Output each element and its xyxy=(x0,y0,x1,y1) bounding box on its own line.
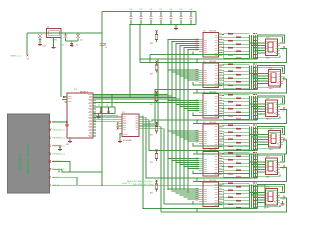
row 5 rail C xyxy=(193,168,287,182)
svg-text:C1: C1 xyxy=(62,45,64,47)
svg-text:R26: R26 xyxy=(236,126,239,128)
resistor R42 xyxy=(222,186,236,188)
row 4 rail B xyxy=(149,150,258,152)
resistor R47 xyxy=(222,200,228,205)
row 6 rail B xyxy=(143,208,258,210)
svg-text:R45: R45 xyxy=(228,195,231,197)
pullup resistor R54 xyxy=(156,182,158,185)
wire bus PD3 xyxy=(93,46,180,100)
IC8 pin labels xyxy=(204,185,218,206)
svg-text:R13: R13 xyxy=(228,76,231,78)
svg-text:DIS3: DIS3 xyxy=(266,98,270,100)
IC4 left pins xyxy=(199,70,203,82)
svg-text:RESET_C_1.1: RESET_C_1.1 xyxy=(11,55,22,57)
svg-text:ULN2803A: ULN2803A xyxy=(123,139,132,142)
display DIS2 pin name labels xyxy=(269,74,280,84)
IC3 74HC595 shift register row 1 xyxy=(203,33,219,58)
resistor R11 xyxy=(222,70,228,71)
IC1 pin name texts xyxy=(88,95,92,137)
IC7 left pins xyxy=(199,159,203,171)
wires to display pins row 4 xyxy=(250,134,269,136)
connector pin 8 xyxy=(49,176,52,179)
wire right end of capacitor bank xyxy=(195,12,197,25)
connector pin 4 xyxy=(49,144,52,147)
resistor R17 xyxy=(222,94,228,97)
connector pin 7 xyxy=(49,168,52,171)
row 1 junction dots xyxy=(252,35,255,38)
wire digit driver 8 xyxy=(143,129,165,204)
row 1 supply stubs xyxy=(192,52,194,55)
resistor R3 xyxy=(222,40,228,41)
IC4 pin number labels xyxy=(196,69,199,81)
resistor R9 xyxy=(222,63,228,66)
wire net RST y=33 xyxy=(27,32,102,34)
svg-text:R53: R53 xyxy=(150,162,153,164)
IC1 left pins XTAL2 RESET xyxy=(65,99,68,101)
svg-text:R10: R10 xyxy=(236,65,239,67)
wire digit driver 2 xyxy=(143,90,156,124)
junction dots reset net xyxy=(39,32,40,33)
wires control bus to IC7 xyxy=(168,158,199,160)
resistor R30 xyxy=(222,139,236,143)
svg-text:74HC595N: 74HC595N xyxy=(209,180,216,182)
svg-text:R51: R51 xyxy=(150,104,153,106)
resistor R48 xyxy=(222,202,236,208)
capacitor C3 xyxy=(100,107,102,114)
IC1 right pin stubs xyxy=(93,95,96,137)
svg-text:LD: LD xyxy=(283,50,285,52)
7-segment display DIS1 xyxy=(266,39,278,56)
svg-text:R23: R23 xyxy=(228,113,231,115)
IC5 pin labels xyxy=(204,96,218,117)
7-segment display DIS5 xyxy=(266,158,278,175)
row 2 bottom wrap wire xyxy=(256,86,281,88)
IC2 left pin stubs xyxy=(119,116,123,129)
display DIS5 right pins xyxy=(277,162,281,172)
row 1 rail C xyxy=(140,49,287,63)
wire from connector pin9 GND rail bottom xyxy=(52,184,102,186)
row 6 top wrap wire xyxy=(258,185,285,193)
row 4 supply stubs xyxy=(192,143,194,146)
IC2 ULN2803A driver xyxy=(122,114,139,137)
svg-text:R44: R44 xyxy=(236,191,239,193)
wire digit driver 7 xyxy=(143,127,162,212)
display DIS4 pin name labels xyxy=(269,135,280,145)
wires to display pins row 2 xyxy=(250,73,269,75)
svg-text:R46: R46 xyxy=(236,198,239,200)
7-segment display DIS2 xyxy=(269,70,281,87)
wire right end down to display row6 xyxy=(264,185,266,208)
ground below Q1 xyxy=(52,48,56,49)
common anode pin row 3 xyxy=(283,107,285,109)
wire AVCC to VCC vertical xyxy=(114,107,116,114)
svg-text:74HC595N: 74HC595N xyxy=(209,92,216,94)
display pin number labels xyxy=(253,33,255,34)
svg-text:R20: R20 xyxy=(236,103,239,105)
row 4 rail A xyxy=(193,145,250,147)
row 3 bottom wrap wire xyxy=(256,116,281,118)
resistor R6 xyxy=(222,48,236,52)
wire VCC rail top of capacitor bank xyxy=(102,11,196,13)
wire digit driver 5 xyxy=(143,118,147,178)
display DIS2 right pins xyxy=(280,74,284,84)
svg-text:IC8: IC8 xyxy=(203,180,206,182)
control bus verticals xyxy=(167,95,169,191)
IC2 pin labels xyxy=(123,117,138,135)
resistor R15 xyxy=(222,81,228,86)
wire rail link row 1 xyxy=(149,55,151,63)
svg-text:IC1: IC1 xyxy=(74,89,77,91)
IC3 right pin stubs xyxy=(219,35,223,56)
resistor R39 xyxy=(222,169,228,174)
resistor R5 xyxy=(222,45,228,48)
wire AVCC rail xyxy=(93,106,115,108)
svg-text:R54: R54 xyxy=(150,193,153,195)
row 2 top wrap wire xyxy=(258,66,285,74)
display DIS6 pin name labels xyxy=(266,193,277,203)
svg-text:R32: R32 xyxy=(236,147,239,149)
IC1 bottom ground stub xyxy=(69,138,71,141)
IC3 pin number labels xyxy=(196,39,199,51)
wire vertical from reset connector xyxy=(26,33,28,56)
wire digit driver 4 xyxy=(143,120,150,151)
7-segment display DIS3 xyxy=(266,100,278,117)
IC2 right pin stubs xyxy=(139,116,143,129)
wire RESET down to IC1 xyxy=(60,32,61,33)
capacitor C1 xyxy=(64,34,68,38)
wire pin7 to bottom rail xyxy=(62,169,102,172)
svg-text:C8: C8 xyxy=(105,47,107,49)
wire bus PD4 xyxy=(93,48,184,103)
connector J1 Receiver Module xyxy=(8,114,50,193)
row 4 top wrap wire xyxy=(258,127,285,135)
wires to display pins row 5 xyxy=(250,161,266,163)
capacitor C10 xyxy=(130,12,132,16)
IC7 pin labels xyxy=(204,154,218,175)
resistor R34 xyxy=(222,155,236,157)
svg-text:C4: C4 xyxy=(106,105,108,107)
wire crystal to ground xyxy=(53,38,55,48)
resistor R46 xyxy=(222,197,236,201)
resistor R41 xyxy=(222,182,228,185)
ground AVCC cluster xyxy=(98,114,100,117)
IC1 left pin XTAL1 xyxy=(63,96,67,98)
wire digit driver 6 xyxy=(142,116,145,209)
svg-text:+C15: +C15 xyxy=(179,9,183,11)
row 1 rail A xyxy=(150,54,250,56)
IC2 ground pin wire xyxy=(120,134,122,142)
display feed verticals row 3 xyxy=(249,96,251,120)
wires control bus to IC5 xyxy=(168,100,199,102)
svg-text:R16: R16 xyxy=(236,86,239,88)
IC4 right pin stubs xyxy=(219,65,223,86)
crystal Q1 xyxy=(47,29,62,38)
wire VCC drop to row rails xyxy=(139,25,141,63)
IC7 right pin stubs xyxy=(219,154,223,175)
IC3 left pins xyxy=(199,40,203,52)
IC6 pin labels xyxy=(204,127,218,148)
svg-text:R12: R12 xyxy=(236,72,239,74)
svg-text:PIND2(INT0)_1.1: PIND2(INT0)_1.1 xyxy=(52,138,65,140)
display feed verticals row 6 xyxy=(249,185,251,209)
resistor R19 xyxy=(222,101,228,102)
wire digit driver 3 xyxy=(143,120,153,121)
svg-text:R52: R52 xyxy=(150,135,153,137)
wire AGND rail xyxy=(93,113,115,115)
svg-text:Receiver Module: Receiver Module xyxy=(25,143,30,174)
svg-text:LD: LD xyxy=(283,169,285,171)
wire from connector pin1 xyxy=(52,121,67,123)
wire joining C1 C2 xyxy=(66,40,79,42)
svg-text:16MHz: 16MHz xyxy=(52,39,57,41)
resistor R43 xyxy=(222,189,228,190)
svg-text:IC6: IC6 xyxy=(203,122,206,124)
svg-text:74HC595N: 74HC595N xyxy=(209,150,216,152)
svg-text:+C12: +C12 xyxy=(149,9,153,11)
resistor R23 xyxy=(222,111,228,116)
svg-text:R28: R28 xyxy=(236,133,239,135)
IC6 left pins xyxy=(199,131,203,143)
7-segment display DIS4 xyxy=(269,131,281,148)
IC5 left pins xyxy=(199,101,203,113)
wire AVCC to bus xyxy=(111,95,113,108)
row 5 supply stubs xyxy=(192,171,194,174)
svg-text:+C16: +C16 xyxy=(189,9,193,11)
svg-text:+C11: +C11 xyxy=(139,9,142,11)
wire from connector pin7 xyxy=(52,168,62,170)
resistor R20 xyxy=(222,103,236,105)
display pin number labels xyxy=(253,152,255,153)
connector pin 1 xyxy=(49,121,52,124)
svg-text:R18: R18 xyxy=(236,96,239,98)
resistor R18 xyxy=(222,97,236,99)
row 4 second wrap wire xyxy=(254,128,283,133)
connector pin 3 xyxy=(49,137,52,140)
resistor R35 xyxy=(222,159,228,160)
ground below C9 xyxy=(39,43,41,44)
wires to display pins row 3 xyxy=(250,103,266,105)
resistor R26 xyxy=(222,128,236,130)
wire cap bank to bus xyxy=(129,25,131,98)
row 3 rail C xyxy=(193,110,287,124)
node reset connector stub xyxy=(27,55,29,57)
svg-text:R49: R49 xyxy=(150,43,153,45)
row 2 second wrap wire xyxy=(254,67,283,72)
svg-text:R41: R41 xyxy=(228,181,231,183)
row 2 rail B xyxy=(155,89,258,91)
svg-text:LD: LD xyxy=(283,111,285,113)
common anode pin row 6 xyxy=(283,196,285,198)
IC8 left pins xyxy=(199,189,203,201)
row 2 rail C xyxy=(193,79,287,93)
capacitor C9 xyxy=(39,32,40,33)
resistor R13 xyxy=(222,75,228,78)
IC7 74HC595 shift register row 5 xyxy=(203,152,219,177)
capacitor C11 xyxy=(140,12,142,16)
ground below C1 C2 xyxy=(70,46,74,47)
resistor R8 xyxy=(222,53,236,59)
svg-text:R37: R37 xyxy=(228,164,231,166)
svg-text:R29: R29 xyxy=(228,137,231,139)
row 5 second wrap wire xyxy=(254,156,283,161)
display DIS4 right pins xyxy=(280,135,284,145)
display pin number labels xyxy=(253,64,255,65)
svg-text:DIS4: DIS4 xyxy=(269,129,273,131)
resistor R21 xyxy=(222,106,228,109)
row 3 rail B xyxy=(152,119,258,121)
wire vertical VCC left xyxy=(101,12,103,186)
wire GND rail to right xyxy=(102,184,265,186)
ground pin4 net xyxy=(58,150,62,151)
ground pin1 net xyxy=(66,122,68,125)
wires to display pins row 1 xyxy=(250,42,266,44)
display DIS5 pin name labels xyxy=(266,163,277,173)
connector pin 2 xyxy=(49,129,52,132)
display feed verticals row 4 xyxy=(249,127,251,151)
resistor R2 xyxy=(222,36,236,38)
svg-text:+C13: +C13 xyxy=(159,9,163,11)
svg-text:74HC595N: 74HC595N xyxy=(209,122,216,124)
common anode pin row 5 xyxy=(283,165,285,167)
wire digit driver 1 xyxy=(143,59,159,125)
row 3 top wrap wire xyxy=(258,96,285,104)
7-segment display DIS6 xyxy=(266,189,278,206)
svg-text:GND: GND xyxy=(66,144,69,146)
svg-text:R31: R31 xyxy=(228,144,231,146)
row 1 rail B xyxy=(140,58,258,60)
resistor R10 xyxy=(222,67,236,69)
svg-text:R47: R47 xyxy=(228,202,231,204)
svg-text:R38: R38 xyxy=(236,168,239,170)
svg-text:IC4: IC4 xyxy=(203,61,206,63)
svg-text:R11: R11 xyxy=(228,69,231,71)
svg-text:74HC595N: 74HC595N xyxy=(209,31,216,33)
svg-text:IC3: IC3 xyxy=(203,31,206,33)
svg-text:R17: R17 xyxy=(228,92,231,94)
svg-text:R19: R19 xyxy=(228,99,231,101)
svg-text:R40: R40 xyxy=(236,175,239,177)
svg-text:C2: C2 xyxy=(76,45,78,47)
capacitor C4 xyxy=(108,107,110,114)
display feed verticals row 1 xyxy=(249,35,251,59)
connector pin 6 xyxy=(49,160,52,163)
display DIS3 pin name labels xyxy=(266,105,277,115)
IC5 right pin stubs xyxy=(219,96,223,117)
junction y185 and x102 xyxy=(101,185,102,186)
wire bus PD0 xyxy=(93,40,168,95)
common anode pin row 4 xyxy=(283,138,285,140)
capacitor C15 xyxy=(180,12,182,16)
display pin number labels xyxy=(253,125,255,126)
IC1 ATMEGA8 microcontroller xyxy=(67,93,93,138)
resistor R33 xyxy=(222,152,228,155)
display pin number labels xyxy=(253,94,255,95)
svg-text:NOTE: R1..R48 = 220 Ohm: NOTE: R1..R48 = 220 Ohm xyxy=(127,181,153,183)
row 4 junction dots xyxy=(252,127,255,130)
svg-text:R42: R42 xyxy=(236,184,239,186)
svg-text:DIS1: DIS1 xyxy=(266,37,270,39)
resistor R16 xyxy=(222,83,236,89)
row 3 rail A xyxy=(193,115,250,117)
svg-text:DIS5: DIS5 xyxy=(266,156,270,158)
svg-text:wDOG_1.1: wDOG_1.1 xyxy=(122,183,130,185)
svg-text:100n: 100n xyxy=(43,46,47,48)
svg-text:LD: LD xyxy=(283,199,285,201)
resistor R38 xyxy=(222,167,236,171)
IC4 74HC595 shift register row 2 xyxy=(203,63,219,88)
IC8 pin number labels xyxy=(196,188,199,200)
capacitor C13 xyxy=(160,12,162,16)
row 6 second wrap wire xyxy=(254,186,283,191)
pullup resistor R49 xyxy=(156,32,158,35)
svg-text:R50: R50 xyxy=(150,74,153,76)
row 3 supply stubs xyxy=(192,113,194,116)
row 2 junction dots xyxy=(252,66,255,69)
row 3 junction dots xyxy=(252,96,255,99)
resistor R14 xyxy=(222,78,236,82)
svg-text:C3: C3 xyxy=(98,105,100,107)
svg-text:R30: R30 xyxy=(236,140,239,142)
wire bus PD2 xyxy=(93,44,176,98)
IC8 right pin stubs xyxy=(219,184,223,205)
svg-text:R21: R21 xyxy=(228,106,231,108)
wires control bus to IC4 xyxy=(168,69,199,71)
display feed verticals row 5 xyxy=(249,154,251,178)
resistor R40 xyxy=(222,172,236,178)
svg-text:PIND1(TXD)_1.1: PIND1(TXD)_1.1 xyxy=(52,130,65,132)
pullup resistor R51 xyxy=(156,93,158,96)
wires IC1 to IC2 inputs xyxy=(93,115,119,117)
svg-text:+C10: +C10 xyxy=(129,9,133,11)
IC6 right pin stubs xyxy=(219,126,223,147)
svg-text:R24: R24 xyxy=(236,117,239,119)
row 1 top wrap wire xyxy=(258,35,285,43)
svg-text:PIND4(XCK)_1.1: PIND4(XCK)_1.1 xyxy=(52,153,65,155)
wires control bus to IC6 xyxy=(168,130,199,132)
ground left of IC1 xyxy=(62,99,65,101)
svg-text:R39: R39 xyxy=(228,171,231,173)
pullup resistor R52 xyxy=(156,124,158,127)
svg-text:IC2: IC2 xyxy=(122,112,125,114)
display feed verticals row 2 xyxy=(249,66,251,90)
svg-text:R35: R35 xyxy=(228,157,231,159)
wires to display pins row 6 xyxy=(250,192,266,194)
capacitor C2 xyxy=(76,34,80,38)
row 1 bottom wrap wire xyxy=(256,55,281,57)
wire bus PD1 xyxy=(93,42,172,97)
wires control bus to IC8 xyxy=(168,188,199,190)
resistor R27 xyxy=(222,131,228,132)
wire bottom rail of capacitor bank xyxy=(130,24,196,26)
IC5 74HC595 shift register row 3 xyxy=(203,94,219,119)
resistor R37 xyxy=(222,164,228,167)
resistor R44 xyxy=(222,192,236,194)
svg-text:DIS6: DIS6 xyxy=(266,187,270,189)
svg-text:R14: R14 xyxy=(236,79,239,81)
resistor R7 xyxy=(222,50,228,55)
IC6 pin number labels xyxy=(196,130,199,142)
capacitor C14 xyxy=(170,12,172,16)
wire from connector pin8 +5V xyxy=(52,177,77,185)
display DIS3 right pins xyxy=(277,104,281,114)
pullup resistor R53 xyxy=(156,151,158,154)
svg-text:R48: R48 xyxy=(236,205,239,207)
row 5 rail B xyxy=(146,177,258,179)
svg-text:+C14: +C14 xyxy=(169,9,173,11)
resistor R28 xyxy=(222,134,236,136)
svg-text:R27: R27 xyxy=(228,130,231,132)
row 5 rail A xyxy=(193,173,250,175)
